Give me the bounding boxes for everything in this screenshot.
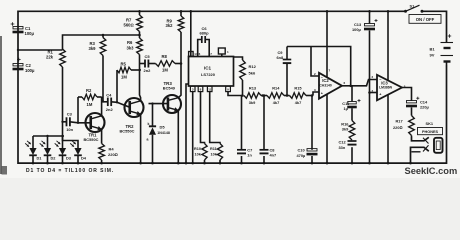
wire IC1 pin 3 to 0V rail <box>191 92 194 165</box>
resistor R14 4k7 <box>267 85 290 105</box>
label ON/OFF box <box>409 15 441 24</box>
svg-text:560Ω: 560Ω <box>124 22 134 27</box>
photodiode D2 TIL100 <box>40 136 57 164</box>
svg-text:D4: D4 <box>81 156 87 161</box>
capacitor C3 10n <box>61 112 91 132</box>
svg-text:C14: C14 <box>420 99 428 104</box>
wire feedback from IC2 output to C9 node <box>311 47 351 87</box>
svg-text:LS7220: LS7220 <box>201 72 216 77</box>
svg-text:9V: 9V <box>430 53 435 58</box>
capacitor C9 6n8 filter feedback <box>277 47 312 96</box>
svg-text:R1: R1 <box>48 49 54 54</box>
svg-text:SeekIC.com: SeekIC.com <box>405 166 458 176</box>
jack upper contact <box>412 137 429 144</box>
svg-text:R10: R10 <box>194 147 201 151</box>
resistor R5 1M base-collector feedback of TR2 <box>116 61 141 103</box>
svg-text:S1: S1 <box>410 4 416 9</box>
resistor R3 3k9 <box>89 34 106 102</box>
svg-text:33n: 33n <box>339 145 346 150</box>
transistor TR3 BC549 <box>163 81 181 113</box>
wire IC3 non-inverting input grounded via C13 line <box>368 91 377 94</box>
svg-text:R15: R15 <box>294 85 302 90</box>
wire TR1 collector to R2/R3/C4 node <box>102 98 105 116</box>
svg-text:D5: D5 <box>160 125 166 130</box>
capacitor C8 4n7 <box>260 94 277 164</box>
svg-text:220Ω: 220Ω <box>393 125 402 130</box>
svg-text:5k6: 5k6 <box>249 70 256 75</box>
resistor R15 4k7 <box>290 85 314 105</box>
svg-text:D3: D3 <box>66 156 72 161</box>
resistor R11 10k <box>210 144 223 165</box>
svg-text:C10: C10 <box>298 147 305 152</box>
svg-text:C12: C12 <box>339 139 347 144</box>
resistor R4 220R emitter resistor <box>99 144 118 165</box>
svg-text:1n: 1n <box>247 153 252 158</box>
resistor R9 3k2 from top rail <box>166 10 184 64</box>
capacitor C11 1u <box>342 86 360 111</box>
transistor TR1 BC550C <box>84 113 105 142</box>
svg-text:D2: D2 <box>51 156 57 161</box>
op-amp IC1 box LS7220 <box>189 57 234 87</box>
scan edge artifact left <box>0 36 7 175</box>
wire filtered supply jog up and across to R3 and R6/R7 junction <box>63 35 140 50</box>
resistor R6 3k3 <box>127 34 143 64</box>
wire IC2 V+ from top rail <box>326 10 329 77</box>
svg-text:100µ: 100µ <box>25 31 35 36</box>
photodiode D3 TIL100 <box>55 136 72 164</box>
capacitor C10 470u <box>297 96 318 165</box>
svg-text:BC550C: BC550C <box>120 129 135 134</box>
svg-text:4n7: 4n7 <box>270 153 277 158</box>
wire TR3 emitter to 0V rail <box>177 110 180 164</box>
svg-text:R14: R14 <box>272 85 280 90</box>
svg-text:BC550C: BC550C <box>84 137 99 142</box>
svg-text:R13: R13 <box>249 85 257 90</box>
wire C9 node to IC2 inverting input <box>311 47 319 77</box>
capacitor C1 100u electrolytic on left rail <box>11 22 35 36</box>
svg-text:22k: 22k <box>46 55 54 60</box>
svg-text:C5: C5 <box>145 54 151 59</box>
svg-text:R2: R2 <box>86 88 92 93</box>
svg-text:100µ: 100µ <box>25 68 35 73</box>
svg-text:6n8: 6n8 <box>277 55 285 60</box>
capacitor C2 100u electrolytic <box>13 58 35 73</box>
resistor R10 10k <box>194 144 207 165</box>
wire IC1 pin 9 to filter chain <box>228 92 243 96</box>
op-amp IC2 CA3140 <box>314 69 346 99</box>
resistor R12 5k6 <box>234 57 257 97</box>
svg-text:SK1: SK1 <box>426 121 434 126</box>
resistor R16 3k9 <box>341 108 355 140</box>
svg-text:PHONES: PHONES <box>422 130 439 134</box>
wire IC3 output <box>402 88 412 102</box>
pin squares on IC1 bottom with numbers <box>190 86 230 91</box>
svg-text:10n: 10n <box>66 127 73 132</box>
svg-text:220Ω: 220Ω <box>108 152 118 157</box>
diode D5 1N4148 <box>147 122 170 164</box>
wire IC1 pin 8 down to R10 <box>201 92 205 144</box>
svg-text:3k3: 3k3 <box>127 45 135 50</box>
wire top rail from switch to battery positive corner <box>422 11 447 42</box>
photodiode D1 TIL100 <box>25 136 42 164</box>
svg-text:C3: C3 <box>67 112 73 117</box>
jack lower contact <box>409 145 429 164</box>
wire TR2 collector up to R6 bottom / C5 node <box>140 64 141 101</box>
wire IC1 supply pin from top rail <box>189 10 198 57</box>
capacitor C6 680p oscillator cap <box>198 26 213 57</box>
svg-text:2n2: 2n2 <box>106 107 114 112</box>
svg-text:4k7: 4k7 <box>295 100 302 105</box>
wire TR2 emitter to 0V rail <box>139 114 142 164</box>
svg-text:680p: 680p <box>199 30 209 35</box>
svg-text:10k: 10k <box>195 152 202 156</box>
svg-text:BC549: BC549 <box>163 86 176 91</box>
svg-text:1N4148: 1N4148 <box>157 131 170 135</box>
svg-text:B1: B1 <box>430 47 436 52</box>
wire chain to IC2 non-inverting input <box>313 92 319 96</box>
wire IC2 V- to 0V rail <box>326 94 329 164</box>
svg-text:100µ: 100µ <box>352 27 361 32</box>
pin square on IC1 top <box>218 48 229 57</box>
wire TR1 emitter to R4 <box>101 129 103 143</box>
svg-text:1M: 1M <box>87 102 93 107</box>
svg-text:4k7: 4k7 <box>273 100 280 105</box>
svg-text:R12: R12 <box>249 64 257 69</box>
svg-text:3k9: 3k9 <box>89 46 97 51</box>
photodiode D4 TIL100 <box>70 141 87 165</box>
svg-text:R5: R5 <box>121 61 127 66</box>
svg-text:R11: R11 <box>210 147 217 151</box>
svg-text:1M: 1M <box>162 68 168 73</box>
socket SK1 PHONES label <box>418 121 443 135</box>
resistor R13 3k9 <box>244 85 267 105</box>
wire TR3 base from D5 cathode <box>149 102 168 126</box>
svg-text:11: 11 <box>208 88 211 92</box>
svg-text:2n2: 2n2 <box>144 68 152 73</box>
transistor TR2 BC550C <box>120 98 144 134</box>
svg-text:R17: R17 <box>396 118 403 123</box>
svg-text:3k9: 3k9 <box>249 100 256 105</box>
wire bottom 0V rail <box>18 50 447 163</box>
svg-text:IC2: IC2 <box>322 78 329 83</box>
svg-text:ON / OFF: ON / OFF <box>416 17 435 22</box>
svg-text:IC3: IC3 <box>381 80 388 85</box>
wire IC3 V+ from top rail <box>387 10 390 81</box>
resistor R1 22k <box>46 49 65 136</box>
wire node A horizontal from C1/C2 junction to R1 top <box>17 49 63 51</box>
svg-text:3k2: 3k2 <box>166 23 174 28</box>
svg-text:1M: 1M <box>121 74 127 79</box>
svg-text:C4: C4 <box>106 92 112 97</box>
resistor R8 1M <box>148 54 182 73</box>
svg-text:a: a <box>147 137 149 141</box>
caption D1 TO D4 = TIL100 OR SIM <box>26 168 114 174</box>
svg-text:k: k <box>148 122 150 126</box>
resistor R7 560R from top rail <box>124 10 143 38</box>
wire R8/R9 node down to TR3 collector <box>178 64 181 98</box>
wire IC1 left side pin to 0V rail <box>185 84 189 164</box>
wire photodiode bus <box>33 135 78 148</box>
capacitor C7 1n <box>237 96 252 165</box>
svg-text:10k: 10k <box>211 152 218 156</box>
svg-text:D1 TO D4 = TIL100 OR SIM.: D1 TO D4 = TIL100 OR SIM. <box>26 168 114 174</box>
svg-text:470µ: 470µ <box>297 153 306 158</box>
svg-text:R4: R4 <box>109 146 115 151</box>
capacitor C13 100u supply decoupling <box>352 10 378 164</box>
capacitor C4 2n2 interstage coupling <box>103 92 130 112</box>
svg-text:R8: R8 <box>162 54 168 59</box>
wire top supply rail from top-left corner to switch S1 <box>18 11 406 50</box>
wire IC1 pin 11 down to R11 <box>210 92 220 144</box>
capacitor C12 33n <box>339 139 357 164</box>
capacitor C14 220u output coupling <box>406 97 429 116</box>
svg-text:D1: D1 <box>37 156 43 161</box>
battery B1 9V <box>430 34 454 65</box>
svg-text:LM386N: LM386N <box>379 86 393 90</box>
svg-text:220µ: 220µ <box>420 105 429 110</box>
svg-text:IC1: IC1 <box>204 65 212 70</box>
op-amp IC3 LM386N <box>371 75 405 101</box>
wire IC2 output to IC3 <box>342 80 377 88</box>
resistor R17 220R <box>393 116 414 138</box>
switch S1 on/off <box>404 4 424 13</box>
svg-text:CA3140: CA3140 <box>319 84 332 88</box>
resistor R2 1M base-collector feedback of TR1 <box>77 88 102 124</box>
capacitor C5 2n2 <box>140 54 152 73</box>
wire IC3 ground pin to 0V rail <box>387 95 390 165</box>
svg-text:1µ: 1µ <box>344 106 349 111</box>
watermark SeekIC.com <box>405 166 458 176</box>
jack plug body <box>434 138 443 153</box>
svg-text:3k9: 3k9 <box>342 127 349 132</box>
